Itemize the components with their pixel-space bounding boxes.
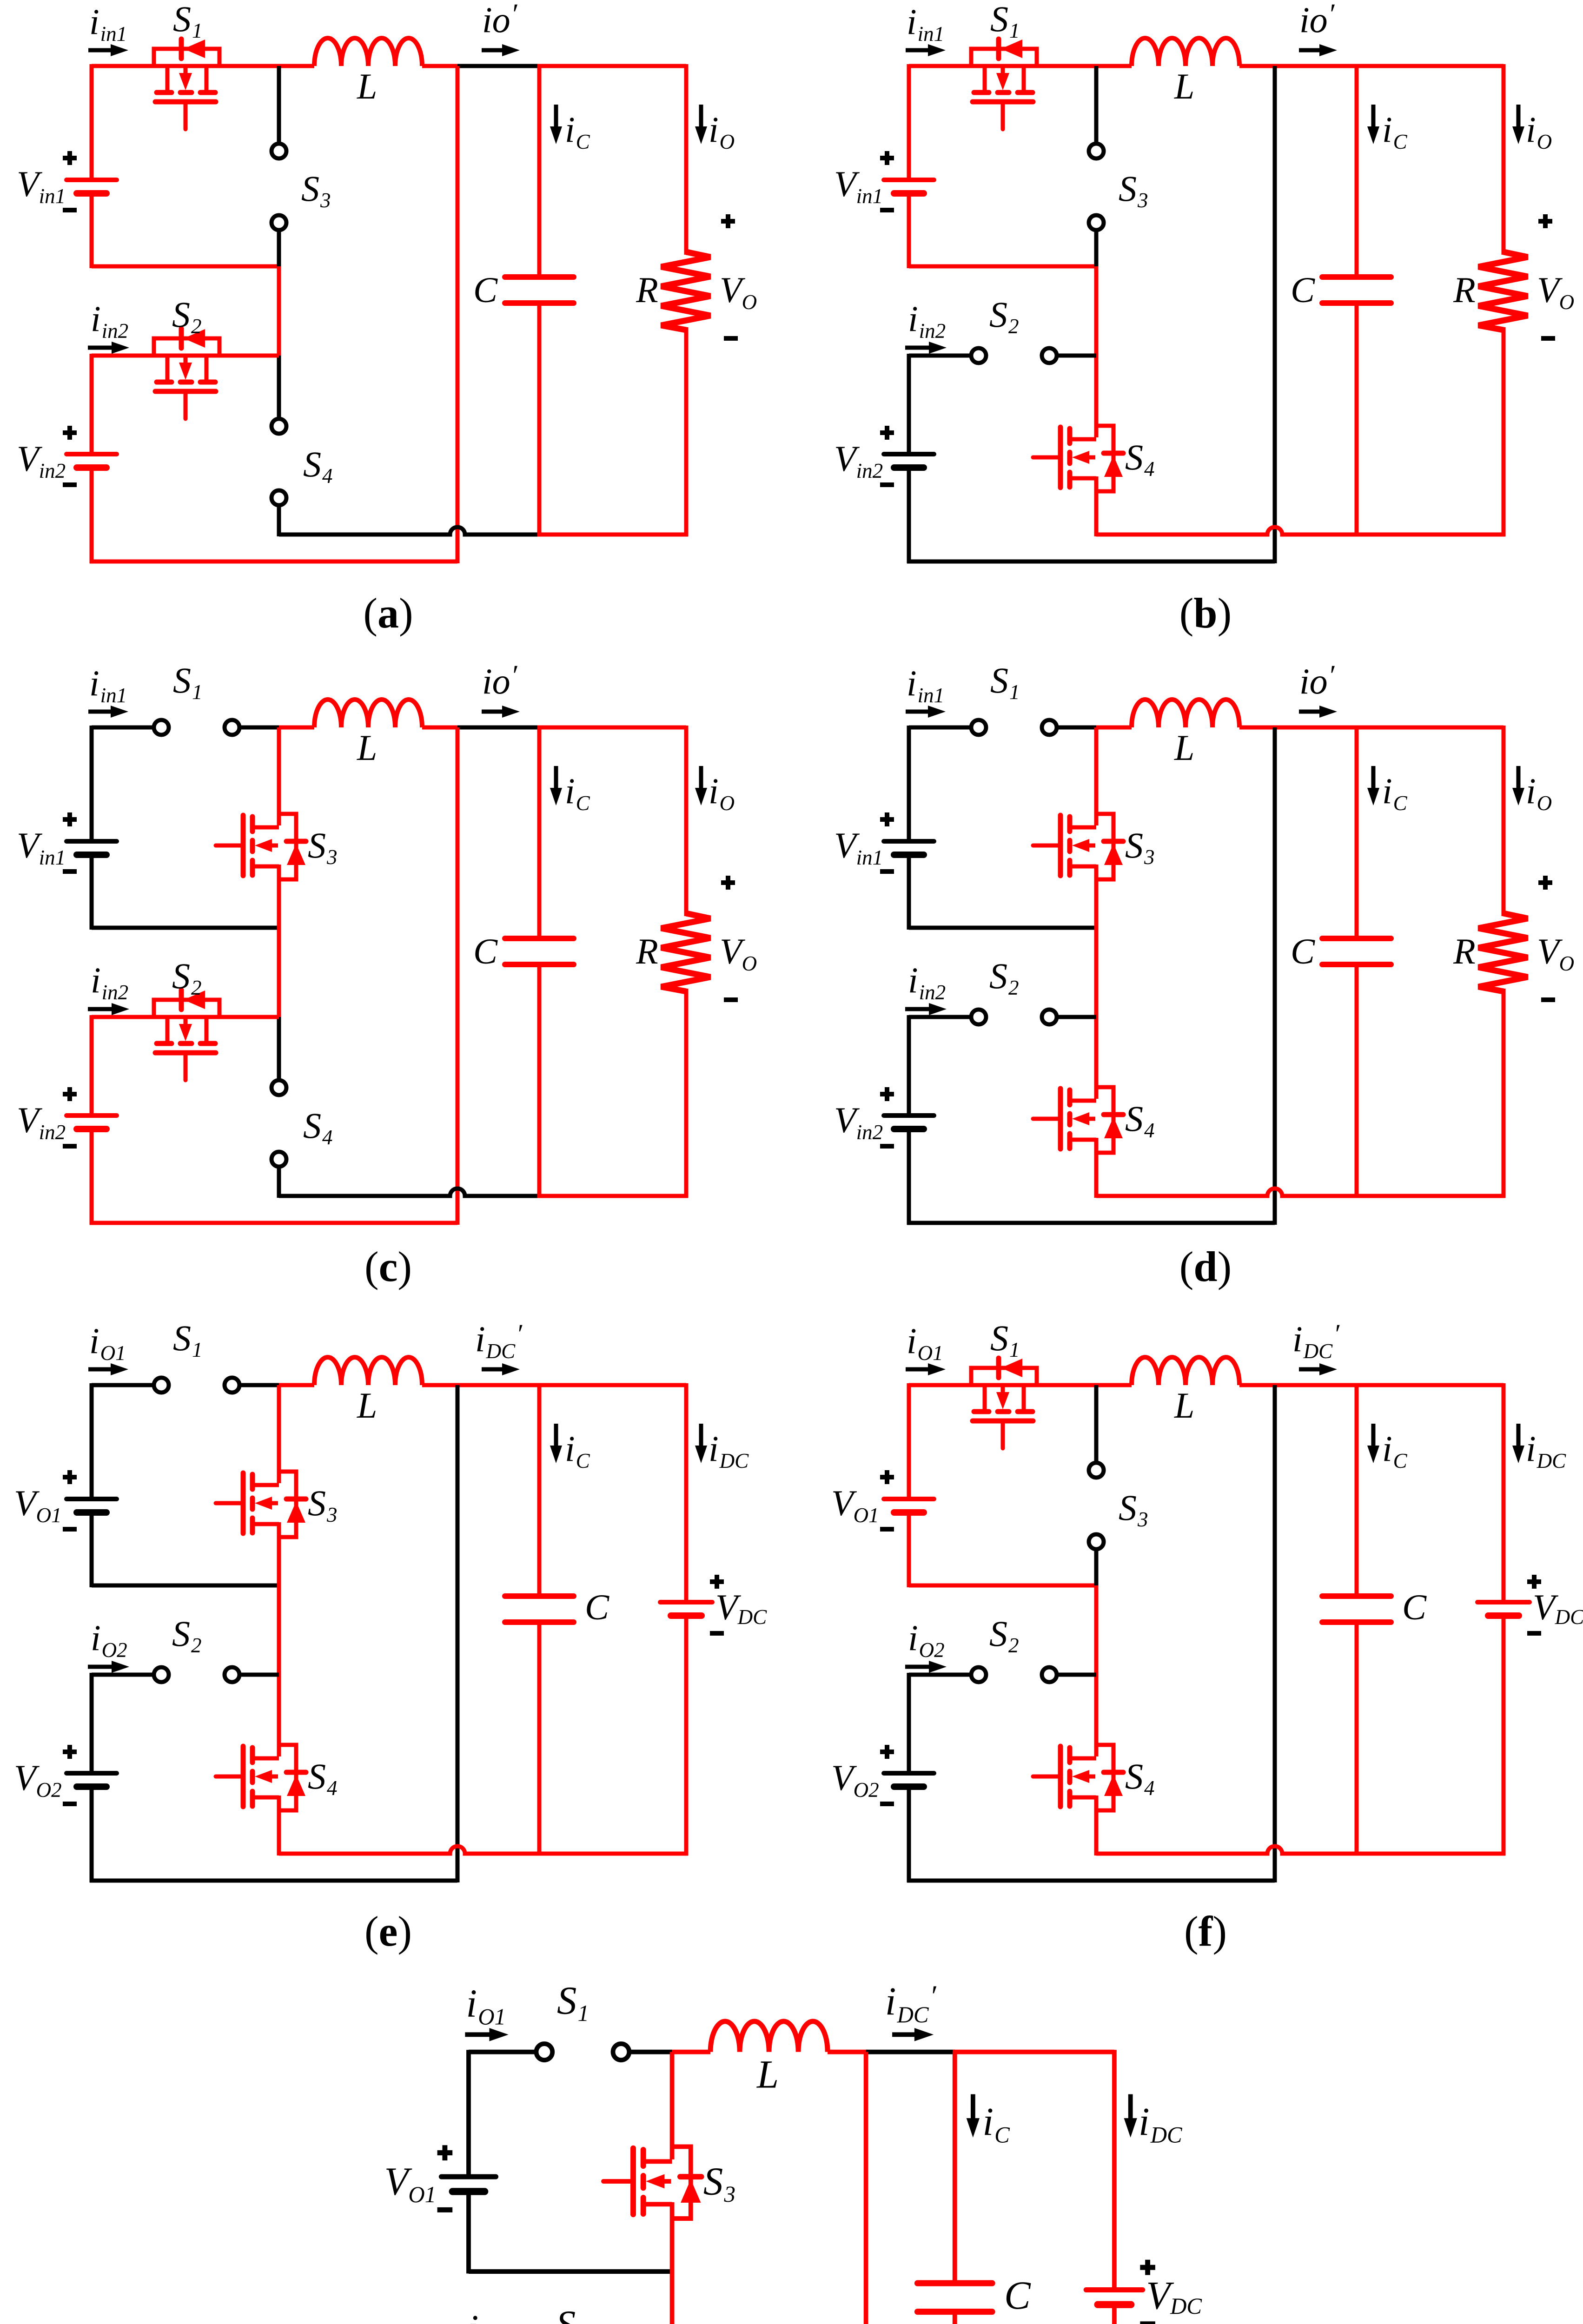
svg-text:C: C [1291, 931, 1315, 971]
svg-text:(e): (e) [364, 1908, 412, 1955]
svg-text:R: R [1453, 270, 1476, 310]
svg-text:C: C [473, 270, 498, 310]
svg-text:C: C [1291, 270, 1315, 310]
svg-text:(f): (f) [1184, 1908, 1227, 1955]
svg-text:L: L [1174, 66, 1194, 106]
svg-text:R: R [1453, 931, 1476, 971]
svg-text:C: C [1402, 1587, 1427, 1627]
svg-text:R: R [636, 270, 658, 310]
svg-text:(d): (d) [1179, 1243, 1232, 1290]
svg-text:L: L [357, 1385, 377, 1426]
svg-text:C: C [1004, 2274, 1031, 2317]
svg-text:C: C [585, 1587, 609, 1627]
svg-text:L: L [357, 66, 377, 106]
svg-text:R: R [636, 931, 658, 971]
svg-text:L: L [756, 2053, 779, 2096]
svg-text:L: L [357, 727, 377, 768]
svg-text:L: L [1174, 727, 1194, 768]
svg-text:(a): (a) [363, 589, 413, 637]
svg-text:(b): (b) [1179, 589, 1232, 637]
svg-text:C: C [473, 931, 498, 971]
svg-text:L: L [1174, 1385, 1194, 1426]
svg-text:(c): (c) [364, 1243, 412, 1290]
